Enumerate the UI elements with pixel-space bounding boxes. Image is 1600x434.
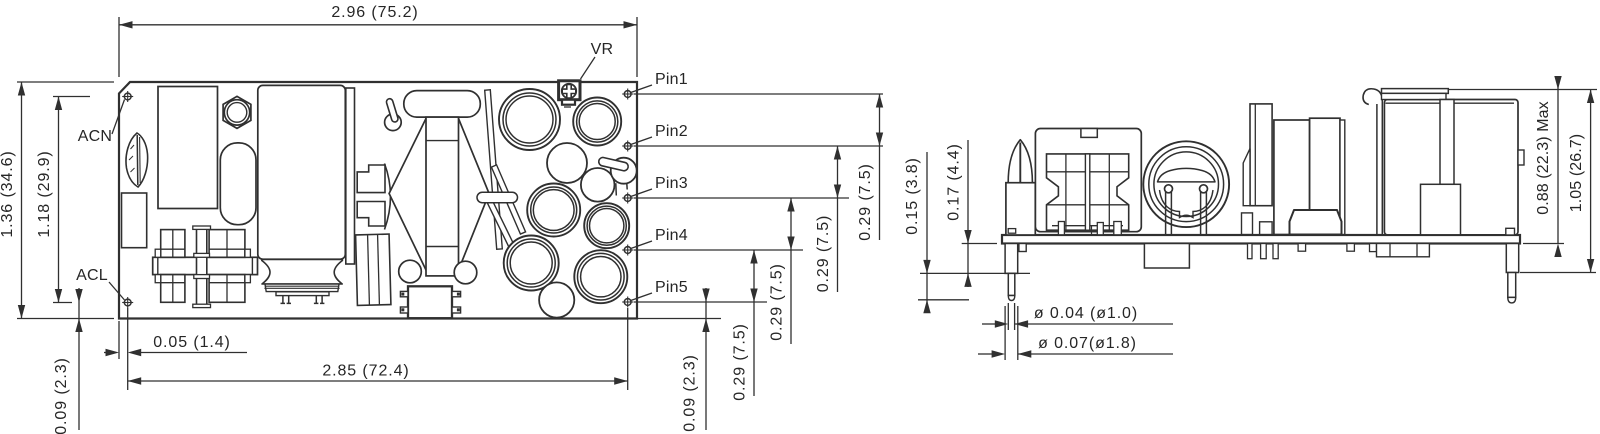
svg-text:0.09 (2.3): 0.09 (2.3): [53, 357, 70, 434]
bulk capacitor base plate: [276, 292, 329, 296]
side transformer bobbin pins: [1058, 222, 1121, 235]
leader line ACL: [109, 282, 125, 300]
extension line capacitor top right: [1449, 89, 1597, 91]
tall film capacitor strip (edge view): [346, 88, 355, 264]
fuse holder rectangle: [122, 193, 147, 248]
solder pin a: [1248, 244, 1253, 259]
output capacitor raised top: [1382, 89, 1449, 100]
AC input pin (left) barrel: [1005, 244, 1018, 301]
side transformer winding inner lines: [1047, 154, 1129, 230]
dimension 1.05 (26.7) line with arrows: [1587, 90, 1594, 273]
dimension 0.29 (7.5) #3 line with arrows: [787, 198, 794, 344]
output capacitor block (side): [1384, 100, 1518, 235]
leader line Pin2: [630, 137, 652, 145]
svg-text:ACN: ACN: [78, 128, 112, 145]
svg-text:ACL: ACL: [76, 267, 108, 284]
dimension 0.05 (1.4) extension lines: [118, 321, 120, 359]
dimension 1.36 (34.6) extension lines: [17, 81, 114, 83]
small tab on capacitor right edge: [1518, 150, 1524, 165]
bulk electrolytic capacitor C bulk body: [258, 85, 346, 259]
front box at capacitor bottom: [1421, 184, 1461, 235]
common-mode choke bar end lines: [157, 257, 159, 274]
solder pin c: [1273, 244, 1278, 259]
dimension 1.18 (29.9) extension lines: [53, 96, 90, 98]
leader line Pin1: [630, 85, 652, 93]
dimension 0.05 (1.4) line with arrows: [104, 349, 247, 356]
svg-text:Pin3: Pin3: [655, 175, 688, 192]
output choke block below transformer: [400, 286, 460, 318]
side view: PCB bar: [1002, 235, 1520, 244]
daughter board bottom block 1: [1242, 213, 1253, 235]
Pin5 extension line: [634, 301, 767, 303]
dimension 0.09 (2.3) right (Pin5 to board edge): [702, 288, 709, 430]
Pin2 extension line: [634, 145, 883, 147]
solder tab d: [1298, 244, 1306, 252]
svg-text:0.29 (7.5): 0.29 (7.5): [769, 263, 786, 340]
svg-text:2.96 (75.2): 2.96 (75.2): [331, 4, 418, 21]
svg-text:0.29 (7.5): 0.29 (7.5): [857, 163, 874, 240]
main transformer top pill cap: [404, 91, 481, 118]
box below board (toroid mount): [1144, 244, 1189, 269]
svg-text:0.88 (22.3) Max: 0.88 (22.3) Max: [1535, 101, 1552, 215]
main transformer bottom-left lead circle: [399, 260, 422, 283]
dimension 0.29 (7.5) #2 line with arrows: [834, 146, 841, 292]
svg-text:ø 0.04 (ø1.0): ø 0.04 (ø1.0): [1034, 305, 1138, 322]
dimension 1.18 (29.9) line with arrows: [55, 97, 62, 303]
bulk capacitor lead right: [314, 296, 325, 304]
VR screw slot circle with cross: [562, 84, 576, 107]
leader line ACN: [112, 100, 125, 135]
pin hole Pin2: [622, 141, 633, 152]
pin hole Pin1: [622, 89, 633, 100]
horizontal jumper pill: [477, 192, 518, 202]
dimension 0.29 (7.5) #4 line with arrows: [750, 250, 757, 396]
input transformer T2 (plain rectangle): [158, 87, 218, 209]
common-mode choke winding block bottom-right: [209, 275, 250, 303]
capacitor C9 (plain): [539, 282, 574, 317]
dimension line dia 0.07: [978, 350, 1173, 357]
svg-text:ø 0.07(ø1.8): ø 0.07(ø1.8): [1038, 335, 1137, 352]
extension line PCB bottom left: [962, 243, 997, 245]
toroid winding dome: [1158, 168, 1216, 182]
pin diameter extension lines: [1005, 303, 1018, 360]
svg-text:Pin4: Pin4: [655, 227, 688, 244]
heatsink tab vertical lines: [1377, 101, 1382, 235]
dimension 1.36 (34.6) line with arrows: [18, 82, 25, 319]
extension line PCB bottom right: [1523, 243, 1564, 245]
svg-text:0.09 (2.3): 0.09 (2.3): [682, 354, 699, 431]
lead stripe in front of capacitor: [1440, 100, 1454, 185]
output capacitor C4 (3 rings): [527, 184, 580, 237]
dimension 0.88 (22.3) Max line with arrows: [1554, 76, 1561, 257]
toroidal inductor outer ring: [1143, 141, 1229, 227]
main transformer core (hexagon outline): [389, 119, 489, 271]
output capacitor C2 (3 rings): [573, 98, 621, 146]
solder pin b: [1261, 244, 1267, 259]
vertical daughter board: [1243, 104, 1272, 206]
board bottom edge extension line right: [637, 318, 721, 320]
wire hook on heatsink tab: [1363, 89, 1382, 105]
toroid winding lower pockets: [1160, 190, 1214, 218]
top view: PCB board outline with chamfered top-left corner: [119, 82, 637, 319]
jumper wire hook (top): [385, 98, 402, 131]
output capacitor C5 (3 rings): [584, 203, 629, 248]
connector housing below board: [1377, 244, 1430, 257]
solder tab f: [1370, 244, 1377, 252]
insulation sleeve flame shape: [1008, 140, 1032, 183]
common-mode choke centre bar: [153, 257, 258, 274]
leader line VR: [581, 57, 596, 79]
pin hole Pin4: [622, 245, 633, 256]
stepped terminal tab upper: [357, 165, 385, 193]
dimension 0.09 (2.3) left (hole to board edge): [75, 288, 82, 430]
AC pin mount block (above board): [1006, 183, 1035, 235]
stepped terminal tab lower: [357, 202, 385, 227]
extension line pin tip left: [918, 299, 969, 301]
dimension 2.85 (72.4) extension line right: [627, 308, 629, 390]
output pin (right) barrel: [1506, 244, 1518, 303]
diagonal jumper wire upper: [491, 165, 525, 234]
svg-text:Pin2: Pin2: [655, 123, 688, 140]
common-mode choke winding block bottom-left: [155, 275, 185, 303]
common-mode choke winding block top-left: [155, 230, 185, 258]
output capacitor C7 (3 rings): [574, 250, 627, 303]
pin header block above board right: [1506, 228, 1515, 235]
svg-text:Pin1: Pin1: [655, 71, 688, 88]
leader line Pin4: [630, 241, 652, 249]
Pin1 extension line: [634, 93, 883, 95]
dimension 0.17 (4.4) line with arrows: [964, 140, 971, 287]
heatsink block pair: [1274, 118, 1345, 234]
toroidal inductor inner ring: [1154, 152, 1219, 217]
dimension 0.29 (7.5) #1 line with arrows: [876, 94, 883, 240]
dimension 2.96 (75.2) extension lines: [118, 17, 120, 77]
svg-text:0.15 (3.8): 0.15 (3.8): [904, 157, 921, 234]
bulk capacitor lead left: [281, 296, 292, 304]
film capacitor block (tilted): [356, 234, 391, 305]
main transformer bottom-right lead circle: [454, 261, 477, 284]
solder tab e: [1347, 244, 1355, 252]
toroid wire lead right: [1200, 185, 1208, 235]
Pin4 extension line: [634, 249, 803, 251]
output capacitor C1 (3 rings): [499, 89, 560, 150]
long jumper wire (near vertical): [485, 90, 503, 249]
Pin3 extension line: [634, 197, 849, 199]
capacitor C3 (plain): [547, 143, 587, 183]
mounting hole ACN: [122, 91, 133, 102]
dimension 2.96 (75.2) line with arrows: [119, 21, 637, 28]
svg-text:1.18 (29.9): 1.18 (29.9): [36, 150, 53, 237]
winding bulge arc: [385, 164, 391, 230]
VR potentiometer body: [559, 81, 580, 100]
svg-text:1.36 (34.6): 1.36 (34.6): [0, 150, 16, 237]
svg-text:0.29 (7.5): 0.29 (7.5): [732, 323, 749, 400]
common-mode choke centre bobbin column: [193, 226, 211, 308]
toroidal inductor middle ring: [1149, 147, 1224, 222]
diagonal jumper wire lower: [487, 200, 515, 248]
tab inside pin block: [1008, 229, 1016, 234]
dimension line dia 0.04: [982, 320, 1173, 327]
extension line pin shoulder right: [1520, 272, 1596, 274]
svg-text:VR: VR: [591, 41, 614, 58]
output capacitor C6 (3 rings): [504, 236, 559, 291]
common-mode choke winding block top-right: [209, 230, 250, 258]
leader line Pin3: [630, 189, 652, 197]
svg-text:0.17 (4.4): 0.17 (4.4): [946, 143, 963, 220]
svg-text:0.29 (7.5): 0.29 (7.5): [815, 215, 832, 292]
side transformer winding cross-section (hourglass): [1047, 154, 1129, 230]
svg-text:2.85 (72.4): 2.85 (72.4): [322, 363, 409, 380]
main transformer centre column: [426, 117, 459, 276]
mounting hole ACL: [122, 297, 133, 308]
svg-text:Pin5: Pin5: [655, 279, 688, 296]
leader line Pin5: [630, 293, 652, 301]
hex nut / screw boss: [223, 96, 251, 128]
lying capacitor in front: [1290, 210, 1342, 235]
daughter board bottom block 2: [1260, 222, 1273, 235]
pin hole Pin5: [622, 297, 633, 308]
toroid wire lead left: [1165, 185, 1173, 235]
side transformer outer shell: [1035, 129, 1141, 232]
bent wire terminal near Pin3: [598, 157, 637, 196]
svg-text:0.05 (1.4): 0.05 (1.4): [153, 334, 230, 351]
varistor (lens shape) with centre line: [126, 133, 148, 187]
dimension 0.15 (3.8) line with arrows: [923, 152, 930, 313]
bulk capacitor crimp sleeve: [262, 259, 343, 291]
svg-text:1.05 (26.7): 1.05 (26.7): [1568, 134, 1585, 212]
snubber capacitor capsule: [220, 143, 256, 225]
capacitor C8 (plain): [581, 168, 615, 202]
dimension 2.85 (72.4) line with arrows: [128, 377, 628, 384]
mount tab below board left: [1019, 244, 1026, 252]
extension line pin shoulder left: [920, 272, 1030, 274]
side transformer top notch: [1081, 129, 1097, 138]
pin hole Pin3: [622, 193, 633, 204]
